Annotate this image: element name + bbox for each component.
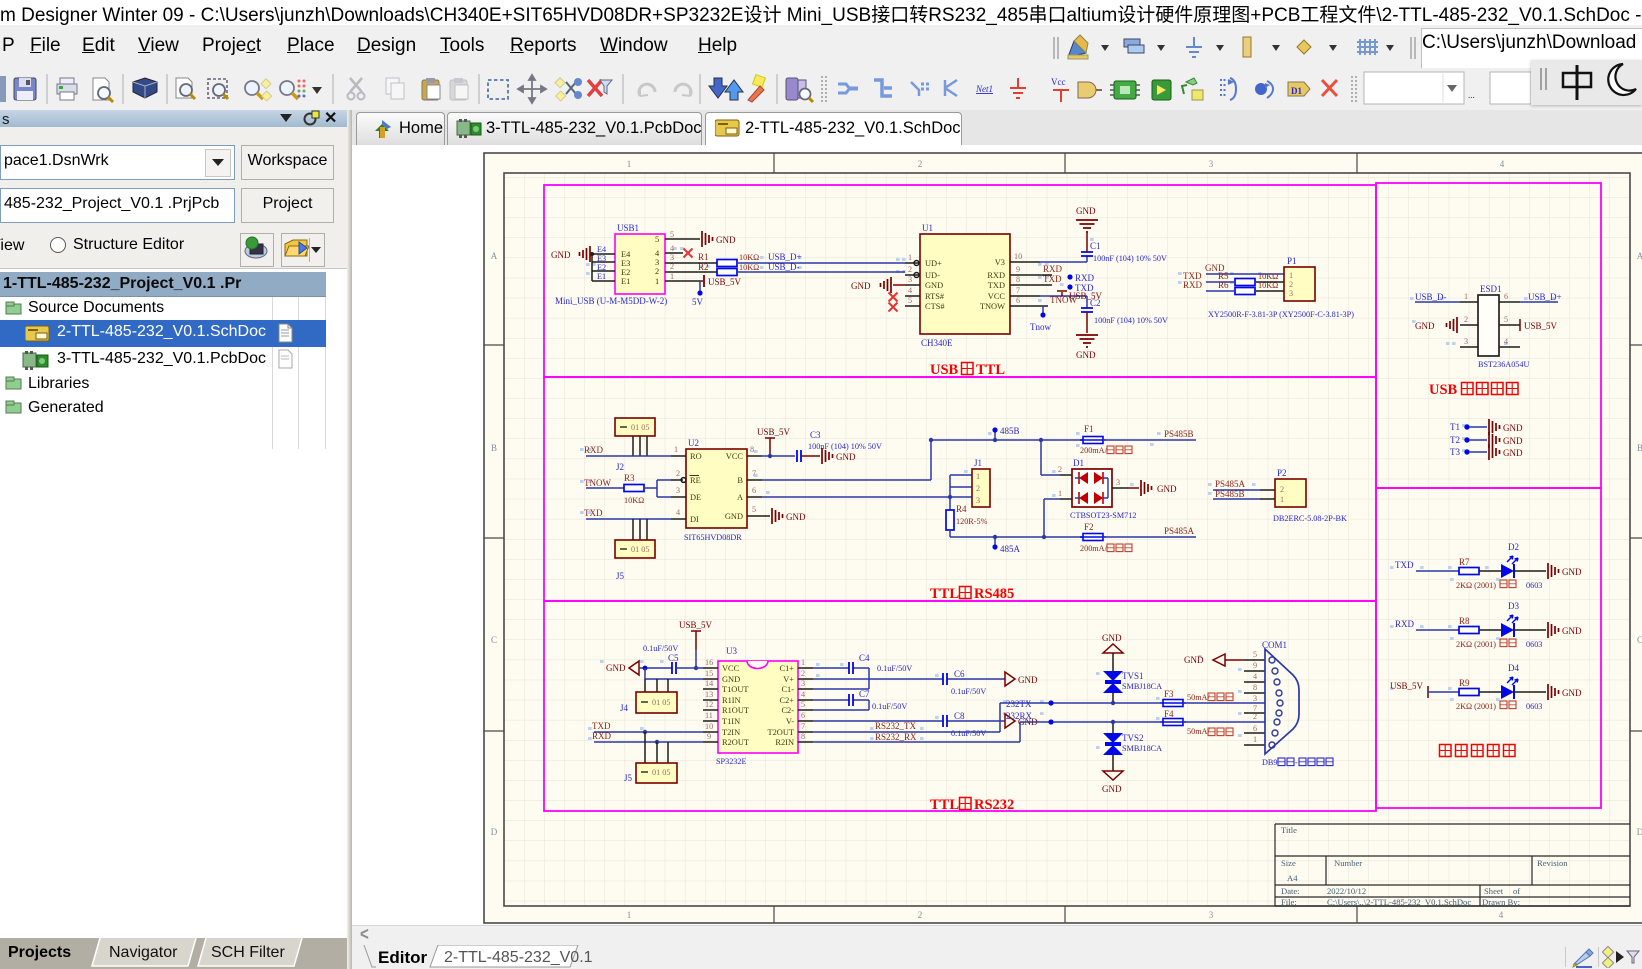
test point T1 <box>1450 419 1523 435</box>
svg-text:C1+: C1+ <box>780 664 795 673</box>
wire PS485A <box>1103 526 1196 537</box>
svg-text:R1: R1 <box>698 252 709 262</box>
svg-text:1: 1 <box>1464 292 1468 301</box>
svg-text:R1IN: R1IN <box>722 696 741 705</box>
svg-text:R6: R6 <box>1218 280 1229 290</box>
connector J1 <box>972 458 990 507</box>
sheet border ruler ticks and labels <box>484 153 1642 923</box>
svg-text:RXD: RXD <box>1183 280 1203 290</box>
svg-text:C2+: C2+ <box>780 696 795 705</box>
wire TX to COM1 pin3 <box>1183 702 1265 704</box>
svg-text:F1: F1 <box>1084 424 1094 434</box>
test point T2 <box>1450 432 1523 448</box>
selection mask speckles <box>580 238 1556 749</box>
svg-text:T3: T3 <box>1450 447 1460 457</box>
svg-text:C4: C4 <box>859 653 870 663</box>
svg-text:Revision: Revision <box>1537 858 1568 868</box>
region frame LED indicators <box>1376 488 1601 808</box>
svg-text:-: - <box>1295 758 1298 767</box>
region frame USB to TTL <box>544 185 1376 377</box>
svg-text:DI: DI <box>690 515 699 524</box>
svg-text:File:: File: <box>1281 897 1297 907</box>
svg-text:Size: Size <box>1281 858 1296 868</box>
svg-text:R7: R7 <box>1459 557 1470 567</box>
svg-text:GND: GND <box>551 250 571 260</box>
svg-text:5: 5 <box>908 296 912 305</box>
svg-text:Mini_USB (U-M-M5DD-W-2): Mini_USB (U-M-M5DD-W-2) <box>555 296 667 306</box>
svg-text:0603: 0603 <box>1526 640 1542 649</box>
wire to D1 pin2 <box>1039 438 1072 475</box>
svg-text:3: 3 <box>1253 694 1257 703</box>
svg-text:0.1uF/50V: 0.1uF/50V <box>872 702 907 711</box>
svg-text:4: 4 <box>1253 672 1257 681</box>
svg-text:10KΩ: 10KΩ <box>739 253 759 262</box>
svg-text:U2: U2 <box>688 438 699 448</box>
svg-text:2: 2 <box>1464 315 1468 324</box>
svg-text:2: 2 <box>976 484 980 493</box>
svg-text:10KΩ: 10KΩ <box>1258 281 1278 290</box>
net label 485B <box>992 426 1019 442</box>
svg-text:3: 3 <box>676 486 680 495</box>
svg-text:4: 4 <box>1499 910 1504 920</box>
svg-text:2KΩ (2001): 2KΩ (2001) <box>1456 640 1496 649</box>
svg-text:2KΩ (2001): 2KΩ (2001) <box>1456 581 1496 590</box>
ESD1 right pins <box>1499 292 1520 347</box>
svg-text:3: 3 <box>1209 910 1214 920</box>
svg-text:GND: GND <box>1102 784 1122 794</box>
svg-text:C5: C5 <box>668 653 679 663</box>
svg-text:4: 4 <box>1500 159 1505 169</box>
svg-text:C:\Users\..\2-TTL-485-232_V0.1: C:\Users\..\2-TTL-485-232_V0.1.SchDoc <box>1327 897 1471 907</box>
svg-text:01 05: 01 05 <box>652 698 670 707</box>
ground GND at U2 pin5 <box>762 508 806 524</box>
LED D4 row <box>1390 663 1582 711</box>
svg-text:C: C <box>1637 635 1642 645</box>
svg-text:C2: C2 <box>1090 298 1101 308</box>
svg-text:3: 3 <box>655 258 659 267</box>
svg-text:R9: R9 <box>1459 678 1470 688</box>
svg-text:C7: C7 <box>859 689 870 699</box>
ground GND at U1 pin3 <box>851 277 905 293</box>
region frame TTL to RS485 <box>544 377 1376 601</box>
svg-text:GND: GND <box>786 512 806 522</box>
svg-text:01 05: 01 05 <box>631 545 649 554</box>
svg-text:SP3232E: SP3232E <box>716 757 746 766</box>
svg-text:4: 4 <box>801 690 805 699</box>
svg-text:VCC: VCC <box>988 292 1006 301</box>
svg-text:1: 1 <box>655 277 659 286</box>
svg-text:GND: GND <box>1503 423 1523 433</box>
svg-text:TTL: TTL <box>976 362 1005 378</box>
svg-text:C6: C6 <box>954 669 965 679</box>
wire RS232_TX <box>813 699 1160 732</box>
svg-text:J5: J5 <box>616 571 625 581</box>
svg-text:RS232: RS232 <box>974 797 1014 813</box>
svg-text:B: B <box>491 443 497 453</box>
svg-text:GND: GND <box>836 452 856 462</box>
svg-text:USB_D-: USB_D- <box>768 262 800 272</box>
svg-text:RO: RO <box>690 452 702 461</box>
svg-text:4: 4 <box>676 508 680 517</box>
wire RXD to U3 pin9 <box>592 731 703 744</box>
svg-text:0.1uF/50V: 0.1uF/50V <box>951 729 986 738</box>
svg-text:2: 2 <box>676 469 680 478</box>
svg-text:D2: D2 <box>1508 542 1519 552</box>
svg-text:A: A <box>1637 251 1642 261</box>
svg-text:R4: R4 <box>956 504 967 514</box>
svg-text:11: 11 <box>705 711 713 720</box>
svg-text:50mA/: 50mA/ <box>1187 693 1210 702</box>
no-ERC marker at pin4 <box>684 249 693 258</box>
wire B net <box>762 438 1083 480</box>
wire RX to COM1 pin2 <box>1183 721 1265 723</box>
svg-text:7: 7 <box>801 722 805 731</box>
fuse F3 <box>1160 689 1233 707</box>
jumper J5 <box>624 732 677 783</box>
svg-text:8: 8 <box>750 445 754 454</box>
U2 left pins <box>671 445 686 519</box>
svg-text:GND: GND <box>722 675 740 684</box>
svg-text:P2: P2 <box>1277 468 1287 478</box>
capacitor C6 <box>813 669 1005 696</box>
U3 left pins <box>703 658 718 742</box>
svg-text:7: 7 <box>752 469 756 478</box>
U1 left pins <box>905 253 920 306</box>
ground GND arrow at C6 <box>1005 672 1038 686</box>
caption USB port protect <box>1429 382 1518 398</box>
svg-text:100nF (104) 10% 50V: 100nF (104) 10% 50V <box>1093 254 1167 263</box>
svg-text:GND: GND <box>1157 484 1177 494</box>
svg-text:COM1: COM1 <box>1262 640 1287 650</box>
wire USB1 pin5 to GND <box>665 238 700 240</box>
svg-text:0.1uF/50V: 0.1uF/50V <box>643 644 678 653</box>
svg-text:232RX: 232RX <box>1006 711 1033 721</box>
svg-text:D4: D4 <box>1508 663 1519 673</box>
TVS diode TVS2 SMBJ18CA <box>1103 720 1162 771</box>
IC U3 SP3232E <box>716 646 798 766</box>
svg-text:R8: R8 <box>1459 616 1470 626</box>
svg-text:6: 6 <box>1504 292 1508 301</box>
svg-text:4: 4 <box>908 286 912 295</box>
svg-text:100nF (104) 10% 50V: 100nF (104) 10% 50V <box>1094 316 1168 325</box>
svg-text:2: 2 <box>1289 280 1293 289</box>
region frame USB protect <box>1376 183 1601 488</box>
svg-text:of: of <box>1513 886 1520 896</box>
svg-text:TTL: TTL <box>930 586 959 602</box>
svg-text:A: A <box>737 493 743 502</box>
svg-text:T1IN: T1IN <box>722 717 740 726</box>
wire to D1 pin1 <box>1042 489 1072 539</box>
svg-text:UD-: UD- <box>925 271 940 280</box>
svg-text:5: 5 <box>1504 315 1508 324</box>
svg-text:TNOW: TNOW <box>1050 295 1077 305</box>
power port USB_5V at U1 VCC <box>1040 291 1103 301</box>
region frame TTL to RS232 <box>544 601 1376 811</box>
ground GND below C2 <box>1076 335 1098 360</box>
svg-text:J4: J4 <box>620 703 629 713</box>
svg-text:USB_5V: USB_5V <box>679 620 713 630</box>
svg-text:SMBJ18CA: SMBJ18CA <box>1122 682 1162 691</box>
svg-text:6: 6 <box>801 711 805 720</box>
svg-text:GND: GND <box>1503 448 1523 458</box>
svg-text:12: 12 <box>705 700 713 709</box>
svg-text:2: 2 <box>1280 485 1284 494</box>
net label 5V <box>692 281 704 307</box>
svg-text:T2IN: T2IN <box>722 728 740 737</box>
svg-text:01 05: 01 05 <box>652 768 670 777</box>
svg-text:T2: T2 <box>1450 435 1460 445</box>
svg-text:GND: GND <box>1562 688 1582 698</box>
svg-text:R2OUT: R2OUT <box>722 738 749 747</box>
fuse F1 <box>1080 424 1132 455</box>
resistor R2 <box>665 262 759 276</box>
ground GND at USB1 <box>551 246 590 262</box>
svg-text:3: 3 <box>976 496 980 505</box>
svg-text:CH340E: CH340E <box>921 338 953 348</box>
svg-text:5: 5 <box>752 505 756 514</box>
svg-text:J1: J1 <box>974 458 982 468</box>
svg-text:RS232_RX: RS232_RX <box>875 732 917 742</box>
svg-text:Drawn By:: Drawn By: <box>1482 897 1520 907</box>
svg-text:E3: E3 <box>621 259 630 268</box>
svg-text:TXD: TXD <box>1395 560 1414 570</box>
capacitor C2 <box>1081 296 1168 333</box>
ground GND arrow at C8 <box>1005 714 1038 728</box>
svg-text:6: 6 <box>752 486 756 495</box>
svg-text:RXD: RXD <box>1395 619 1415 629</box>
ESD protector ESD1 BST236A054U <box>1478 284 1529 369</box>
caption TTL to RS232 <box>930 797 1014 813</box>
svg-text:USB_5V: USB_5V <box>1524 321 1558 331</box>
svg-text:50mA/: 50mA/ <box>1187 727 1210 736</box>
svg-text:UD+: UD+ <box>925 259 942 268</box>
jumper J5 lower <box>615 519 655 581</box>
svg-text:2KΩ (2001): 2KΩ (2001) <box>1456 702 1496 711</box>
connector USB1 <box>555 223 667 306</box>
svg-text:2: 2 <box>918 910 923 920</box>
ground GND at USB1 pin5 <box>702 231 736 247</box>
svg-text:Vcc: Vcc <box>1051 77 1066 87</box>
svg-text:V+: V+ <box>783 675 794 684</box>
svg-text:GND: GND <box>725 512 743 521</box>
svg-text:A: A <box>491 251 498 261</box>
svg-text:VCC: VCC <box>726 452 744 461</box>
svg-text:10KΩ: 10KΩ <box>739 263 759 272</box>
fuse F2 <box>1080 522 1132 553</box>
svg-text:E2: E2 <box>597 263 606 272</box>
svg-text:F2: F2 <box>1084 522 1094 532</box>
svg-text:TXD: TXD <box>1043 274 1062 284</box>
svg-text:0603: 0603 <box>1526 702 1542 711</box>
svg-text:USB_D+: USB_D+ <box>768 252 802 262</box>
wire USB_D+ from ESD1 <box>1520 292 1562 302</box>
capacitor C4 <box>813 653 912 689</box>
svg-text:V3: V3 <box>995 258 1005 267</box>
svg-text:6: 6 <box>1016 296 1020 305</box>
svg-text:GND: GND <box>606 663 626 673</box>
svg-text:2022/10/12: 2022/10/12 <box>1327 886 1366 896</box>
svg-text:R2IN: R2IN <box>775 738 794 747</box>
resistor R4 <box>946 504 1083 537</box>
svg-text:J5: J5 <box>624 773 633 783</box>
svg-text:D1: D1 <box>1073 458 1084 468</box>
svg-text:1: 1 <box>1058 489 1062 498</box>
caption LED circuit <box>1440 745 1516 757</box>
TVS array D1 CTBSOT23-SM712 <box>1070 458 1136 520</box>
svg-text:R1OUT: R1OUT <box>722 706 749 715</box>
caption TTL to RS485 <box>930 586 1014 602</box>
svg-text:F3: F3 <box>1164 689 1174 699</box>
svg-text:TXD: TXD <box>988 281 1005 290</box>
svg-text:...: ... <box>1468 90 1475 100</box>
power port USB_5V at U3 <box>679 620 713 670</box>
jumper J2 <box>615 418 655 472</box>
svg-text:14: 14 <box>705 679 713 688</box>
svg-text:T1OUT: T1OUT <box>722 685 749 694</box>
svg-text:USB_5V: USB_5V <box>708 277 742 287</box>
net label TXD at U1 <box>1043 274 1094 293</box>
svg-text:5: 5 <box>1253 650 1257 659</box>
no-ERC markers at U1 RTS CTS <box>889 293 898 312</box>
svg-text:SIT65HVD08DR: SIT65HVD08DR <box>684 533 742 542</box>
svg-text:3: 3 <box>670 253 674 262</box>
wire USB_D+ <box>737 252 905 263</box>
wire U3 GND pin15 <box>645 668 703 679</box>
svg-text:C1-: C1- <box>781 685 794 694</box>
U2 right pins <box>747 445 762 516</box>
svg-text:RE: RE <box>690 476 701 485</box>
ground GND at C3 <box>822 448 856 464</box>
U3 right pins <box>798 658 813 742</box>
ESD1 left pins <box>1460 292 1478 347</box>
svg-text:3: 3 <box>801 679 805 688</box>
ground GND arrow at C5 <box>606 661 672 675</box>
svg-text:1: 1 <box>801 658 805 667</box>
IC U2 SIT65HVD08DR <box>684 438 747 542</box>
svg-text:5V: 5V <box>692 297 704 307</box>
svg-text:TNOW: TNOW <box>584 478 611 488</box>
svg-text:16: 16 <box>705 658 713 667</box>
svg-text:A4: A4 <box>1287 873 1298 883</box>
svg-text:0603: 0603 <box>1526 581 1542 590</box>
svg-text:GND: GND <box>925 281 943 290</box>
svg-text:C2-: C2- <box>781 706 794 715</box>
ground GND at D1 pin3 <box>1112 478 1177 496</box>
net label 485A <box>992 535 1020 554</box>
svg-text:3: 3 <box>908 275 912 284</box>
svg-text:15: 15 <box>705 669 713 678</box>
connector COM1 DB9 <box>1244 640 1333 767</box>
power port USB_5V at ESD1 pin5 <box>1520 319 1558 331</box>
svg-text:T1: T1 <box>1450 422 1460 432</box>
svg-text:2: 2 <box>655 267 659 276</box>
resistor R3 <box>584 473 671 505</box>
svg-text:3: 3 <box>1464 337 1468 346</box>
svg-text:TTL: TTL <box>930 797 959 813</box>
svg-text:C8: C8 <box>954 711 965 721</box>
power port USB_5V at U2 <box>757 427 795 458</box>
capacitor C3 <box>797 430 882 462</box>
svg-text:1: 1 <box>627 159 632 169</box>
svg-text:TXD: TXD <box>584 508 603 518</box>
svg-text:DE: DE <box>690 493 701 502</box>
svg-text:RXD: RXD <box>987 271 1005 280</box>
svg-text:1: 1 <box>670 272 674 281</box>
svg-text:R3: R3 <box>624 473 635 483</box>
svg-text:GND: GND <box>1562 567 1582 577</box>
svg-text:ESD1: ESD1 <box>1480 284 1502 294</box>
svg-text:R2: R2 <box>698 262 709 272</box>
wire PS485B <box>1103 429 1196 440</box>
svg-text:C: C <box>491 635 497 645</box>
LED D3 row <box>1395 601 1582 649</box>
svg-text:RXD: RXD <box>592 731 612 741</box>
svg-text:9: 9 <box>1253 661 1257 670</box>
svg-text:GND: GND <box>1184 655 1204 665</box>
wire USB1 left pins to GND <box>590 245 615 281</box>
svg-text:2: 2 <box>908 265 912 274</box>
svg-text:485B: 485B <box>1000 426 1020 436</box>
wire USB_D- <box>737 262 905 272</box>
TVS diode TVS1 SMBJ18CA <box>1103 671 1162 705</box>
svg-text:V-: V- <box>786 717 794 726</box>
wire GND to P1 pin1 <box>1205 263 1284 274</box>
svg-text:RS232_TX: RS232_TX <box>875 721 917 731</box>
svg-text:1: 1 <box>908 253 912 262</box>
svg-text:C1: C1 <box>1090 241 1101 251</box>
svg-text:CTBSOT23-SM712: CTBSOT23-SM712 <box>1070 511 1136 520</box>
svg-text:GND: GND <box>716 235 736 245</box>
svg-text:3: 3 <box>1289 289 1293 298</box>
svg-text:2: 2 <box>918 159 923 169</box>
svg-text:E1: E1 <box>597 272 606 281</box>
svg-text:7: 7 <box>1016 286 1020 295</box>
capacitor C7 <box>813 689 907 711</box>
IC U1 CH340E <box>920 223 1010 348</box>
resistor R6 <box>1183 280 1284 295</box>
svg-text:B: B <box>1637 443 1642 453</box>
wire TXD to U3 pin10 <box>592 721 703 734</box>
power port USB_5V at USB1 pin1 <box>665 275 742 287</box>
svg-text:D1: D1 <box>1291 86 1302 96</box>
svg-text:TVS2: TVS2 <box>1122 733 1144 743</box>
svg-text:GND: GND <box>1415 321 1435 331</box>
svg-text:10: 10 <box>1014 252 1022 261</box>
svg-text:Number: Number <box>1334 858 1362 868</box>
svg-text:8: 8 <box>1253 683 1257 692</box>
svg-text:GND: GND <box>1076 206 1096 216</box>
ground GND below TVS2 <box>1102 771 1123 794</box>
resistor R1 <box>665 252 759 267</box>
svg-text:200mA/: 200mA/ <box>1080 544 1108 553</box>
svg-text:U3: U3 <box>726 646 737 656</box>
net label RXD at U1 <box>1043 264 1095 283</box>
svg-text:B: B <box>737 476 743 485</box>
svg-text:TNOW: TNOW <box>980 302 1005 311</box>
svg-text:10: 10 <box>705 722 713 731</box>
svg-text:4: 4 <box>670 244 674 253</box>
svg-text:E4: E4 <box>597 245 606 254</box>
svg-text:120R-5%: 120R-5% <box>956 517 988 526</box>
svg-text:PS485B: PS485B <box>1164 429 1194 439</box>
svg-text:RXD: RXD <box>1043 264 1063 274</box>
svg-text:TXD: TXD <box>592 721 611 731</box>
wire TXD to U2 <box>584 508 671 519</box>
svg-text:5: 5 <box>801 700 805 709</box>
svg-text:E4: E4 <box>621 250 631 259</box>
svg-text:U1: U1 <box>922 223 933 233</box>
wire A net <box>762 475 972 510</box>
